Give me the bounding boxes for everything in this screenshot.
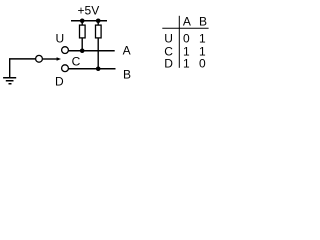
truth table header divider xyxy=(162,27,208,29)
wire: R1 upper lead xyxy=(81,20,83,26)
svg-text:U: U xyxy=(55,32,64,46)
+5V power rail xyxy=(71,20,107,22)
junction: R2 to node B xyxy=(96,66,101,71)
junction: rail to R2 xyxy=(96,18,101,23)
wire: R2 lower lead to node B xyxy=(97,38,99,70)
svg-text:0: 0 xyxy=(183,31,190,45)
junction: R1 to node A xyxy=(80,48,85,53)
svg-text:B: B xyxy=(123,68,131,82)
svg-text:U: U xyxy=(164,31,173,45)
svg-text:C: C xyxy=(72,55,81,69)
svg-text:A: A xyxy=(183,15,191,29)
switch wiper arrow xyxy=(43,57,61,61)
svg-text:B: B xyxy=(199,15,207,29)
svg-text:D: D xyxy=(164,57,173,71)
switch contact U xyxy=(62,47,69,54)
wire: R1 lower lead to node A xyxy=(81,38,83,52)
truth table row C xyxy=(164,44,206,58)
svg-text:+5V: +5V xyxy=(78,4,100,18)
svg-text:A: A xyxy=(123,44,131,58)
truth table column divider xyxy=(178,16,180,68)
svg-text:1: 1 xyxy=(199,31,206,45)
switch contact D xyxy=(62,65,69,72)
wire: node B xyxy=(68,68,115,70)
ground xyxy=(3,59,16,84)
wire: node A xyxy=(68,50,114,52)
wire: R2 upper lead xyxy=(97,20,99,26)
svg-text:0: 0 xyxy=(199,57,206,71)
svg-text:1: 1 xyxy=(183,57,190,71)
switch pole terminal xyxy=(36,55,43,62)
junction: rail to R1 xyxy=(80,18,85,23)
truth table row D xyxy=(164,57,206,71)
wire: ground to switch pole xyxy=(9,58,36,60)
truth table row U xyxy=(164,31,206,45)
resistor R2 xyxy=(96,25,102,38)
svg-text:D: D xyxy=(55,75,64,89)
resistor R1 xyxy=(80,25,86,38)
